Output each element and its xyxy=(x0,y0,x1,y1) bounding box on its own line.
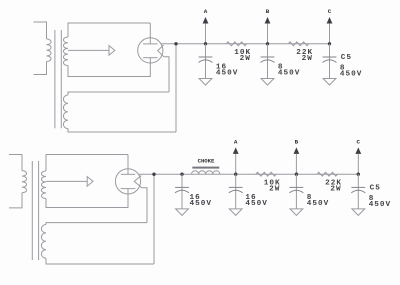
ground node B cap xyxy=(261,79,274,86)
transformer T2 HV secondary winding xyxy=(46,155,128,172)
junction dot node C bottom xyxy=(357,173,360,176)
svg-text:2W: 2W xyxy=(302,55,313,63)
svg-text:450V: 450V xyxy=(369,201,391,209)
wire tube V1 filament to heater winding xyxy=(164,57,169,92)
svg-text:450V: 450V xyxy=(216,70,238,78)
svg-text:C5: C5 xyxy=(341,54,352,62)
node B arrow xyxy=(267,24,269,44)
capacitor 8uF 450V at node B xyxy=(267,44,269,79)
node C arrow xyxy=(329,24,331,44)
capacitor 8uF 450V at node B bottom xyxy=(295,174,297,209)
ground node C cap xyxy=(323,79,336,86)
svg-text:450V: 450V xyxy=(307,200,329,208)
transformer T1 HV secondary winding xyxy=(68,23,150,37)
resistor 22K 2W bottom xyxy=(317,172,337,176)
transformer T2 heater winding xyxy=(46,223,147,225)
junction dot node B bottom xyxy=(295,173,298,176)
capacitor 16uF 450V input xyxy=(181,174,183,209)
junction dot node B xyxy=(266,42,269,45)
svg-text:CHOKE: CHOKE xyxy=(198,158,215,165)
transformer T2 center-tap arrow xyxy=(46,180,87,182)
capacitor C5 8uF 450V at node C xyxy=(329,44,331,79)
svg-text:C5: C5 xyxy=(370,184,381,192)
wire main B+ line top xyxy=(161,43,330,45)
transformer T1 core xyxy=(55,30,61,128)
svg-text:2W: 2W xyxy=(240,55,251,63)
svg-text:C: C xyxy=(357,139,361,146)
wire tube V2 filament to heater winding xyxy=(142,188,147,223)
ground node A cap bottom xyxy=(229,209,242,216)
ground input cap xyxy=(176,209,189,216)
wire output junction down to heater winding bottom xyxy=(175,44,177,132)
tube V2 cathode arrow notch xyxy=(134,176,141,188)
svg-text:450V: 450V xyxy=(190,200,212,208)
ground node A cap xyxy=(199,79,212,86)
svg-text:450V: 450V xyxy=(278,70,300,78)
node C arrow bottom xyxy=(357,154,359,174)
transformer T1 primary winding xyxy=(34,22,47,39)
svg-text:A: A xyxy=(204,8,208,15)
tube V1 cathode arrow notch xyxy=(158,45,164,57)
svg-text:450V: 450V xyxy=(245,200,267,208)
ground node C cap bottom xyxy=(352,209,365,216)
resistor 10K 2W bottom xyxy=(256,172,276,176)
transformer T1 center-tap arrow xyxy=(68,49,109,51)
transformer T2 primary winding xyxy=(9,155,22,171)
node B arrow bottom xyxy=(295,154,297,174)
node A arrow xyxy=(205,24,207,44)
junction dot tube V2 output xyxy=(152,173,155,176)
rectifier tube V1 xyxy=(138,38,163,63)
node A arrow bottom xyxy=(235,154,237,174)
svg-text:450V: 450V xyxy=(340,71,362,79)
junction dot node A bottom xyxy=(234,173,237,176)
junction dot input filter cap xyxy=(180,173,183,176)
choke iron core bar xyxy=(192,167,219,169)
wire main B+ line bottom xyxy=(139,173,359,175)
svg-text:C: C xyxy=(328,8,332,15)
junction dot node C xyxy=(328,42,331,45)
ground node B cap bottom xyxy=(290,209,303,216)
svg-text:2W: 2W xyxy=(330,185,341,193)
capacitor C5 8uF 450V at node C bottom xyxy=(357,174,359,209)
svg-text:B: B xyxy=(266,8,270,15)
choke winding xyxy=(192,171,220,174)
capacitor 16uF 450V at node A xyxy=(205,44,207,79)
resistor 22K 2W top xyxy=(288,42,308,46)
svg-text:2W: 2W xyxy=(269,185,280,193)
transformer T2 core xyxy=(32,161,38,260)
resistor 10K 2W top xyxy=(226,42,246,46)
junction dot tube output xyxy=(174,42,177,45)
wire output junction down to heater winding bottom xyxy=(153,174,155,264)
capacitor 16uF 450V at node A bottom xyxy=(235,174,237,209)
svg-text:B: B xyxy=(295,139,299,146)
rectifier tube V2 xyxy=(115,169,140,194)
svg-text:A: A xyxy=(234,139,238,146)
transformer T1 heater winding xyxy=(68,92,169,95)
junction dot node A xyxy=(204,42,207,45)
